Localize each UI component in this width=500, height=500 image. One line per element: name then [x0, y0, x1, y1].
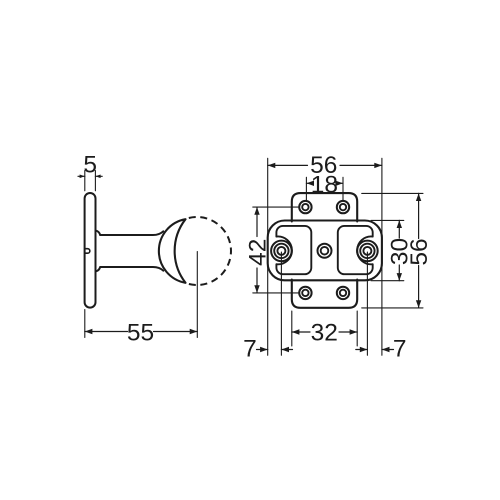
dimension 18 extension lines — [306, 177, 343, 200]
dimension 42 arrowheads — [254, 207, 259, 293]
dimension 55 extension lines — [84, 310, 86, 338]
dimension 42 line — [256, 207, 258, 293]
dimension 7 right extension line at hole center — [366, 252, 368, 355]
dimension 56 right arrowheads — [416, 193, 421, 308]
dimension 30 extension lines — [371, 220, 404, 280]
dimension 5 arrowheads — [80, 175, 101, 179]
dimension 56 right line — [418, 193, 420, 308]
left side hole — [271, 241, 292, 262]
centerline of rail circle — [196, 252, 198, 338]
dimension 5 leader lines — [78, 175, 102, 177]
saddle crescent — [159, 219, 186, 283]
right recess with screw cutout — [338, 226, 373, 274]
svg-text:5: 5 — [83, 151, 97, 178]
dimension 55 line — [85, 331, 198, 333]
left recess with screw cutout — [276, 226, 311, 274]
dimension 7 left leader lines — [257, 349, 293, 351]
right side hole — [357, 241, 378, 262]
bottom-right hole — [337, 287, 349, 299]
dimension 55 arrowheads — [85, 329, 198, 334]
dimension 7 left extension line at hole center — [280, 252, 282, 355]
dimension 42 extension lines — [253, 207, 299, 293]
dimension 18 line — [306, 182, 343, 184]
dimension 7 left arrowheads — [260, 347, 289, 352]
dashed rail circle (phantom) — [189, 217, 231, 285]
top-left hole — [299, 201, 311, 213]
stem top edge — [96, 231, 164, 235]
dimension 18 arrowheads — [306, 181, 343, 186]
top tab outline — [292, 193, 357, 221]
svg-text:7: 7 — [243, 336, 257, 363]
dimension 56 top arrowheads — [268, 163, 382, 168]
dimension 32 extension lines — [292, 311, 357, 346]
bottom-left hole — [299, 287, 311, 299]
svg-text:56: 56 — [406, 238, 433, 265]
svg-text:55: 55 — [127, 319, 154, 346]
dimension 56 top extension lines — [268, 158, 382, 355]
main body outline — [268, 221, 382, 281]
dimension 7 right arrowheads — [360, 347, 390, 352]
dimension 56 top line — [268, 164, 382, 166]
dimension 7 right leader lines — [356, 349, 394, 351]
svg-text:18: 18 — [311, 171, 338, 198]
stem bottom edge — [96, 267, 164, 271]
dimension 5 extension lines — [85, 171, 96, 191]
dimension 32 line — [292, 331, 357, 333]
dimension 56 right extension lines — [362, 193, 423, 308]
svg-text:7: 7 — [393, 336, 407, 363]
svg-text:42: 42 — [244, 239, 271, 266]
svg-text:32: 32 — [311, 319, 338, 346]
wall plate (side view) — [85, 193, 96, 308]
set screw bump on plate edge — [86, 249, 90, 254]
dimension 32 arrowheads — [292, 329, 357, 334]
center hole — [318, 244, 332, 258]
dimension 30 line — [398, 220, 400, 280]
dimension 30 arrowheads — [397, 220, 402, 280]
bottom tab outline — [292, 280, 357, 308]
top-right hole — [337, 201, 349, 213]
